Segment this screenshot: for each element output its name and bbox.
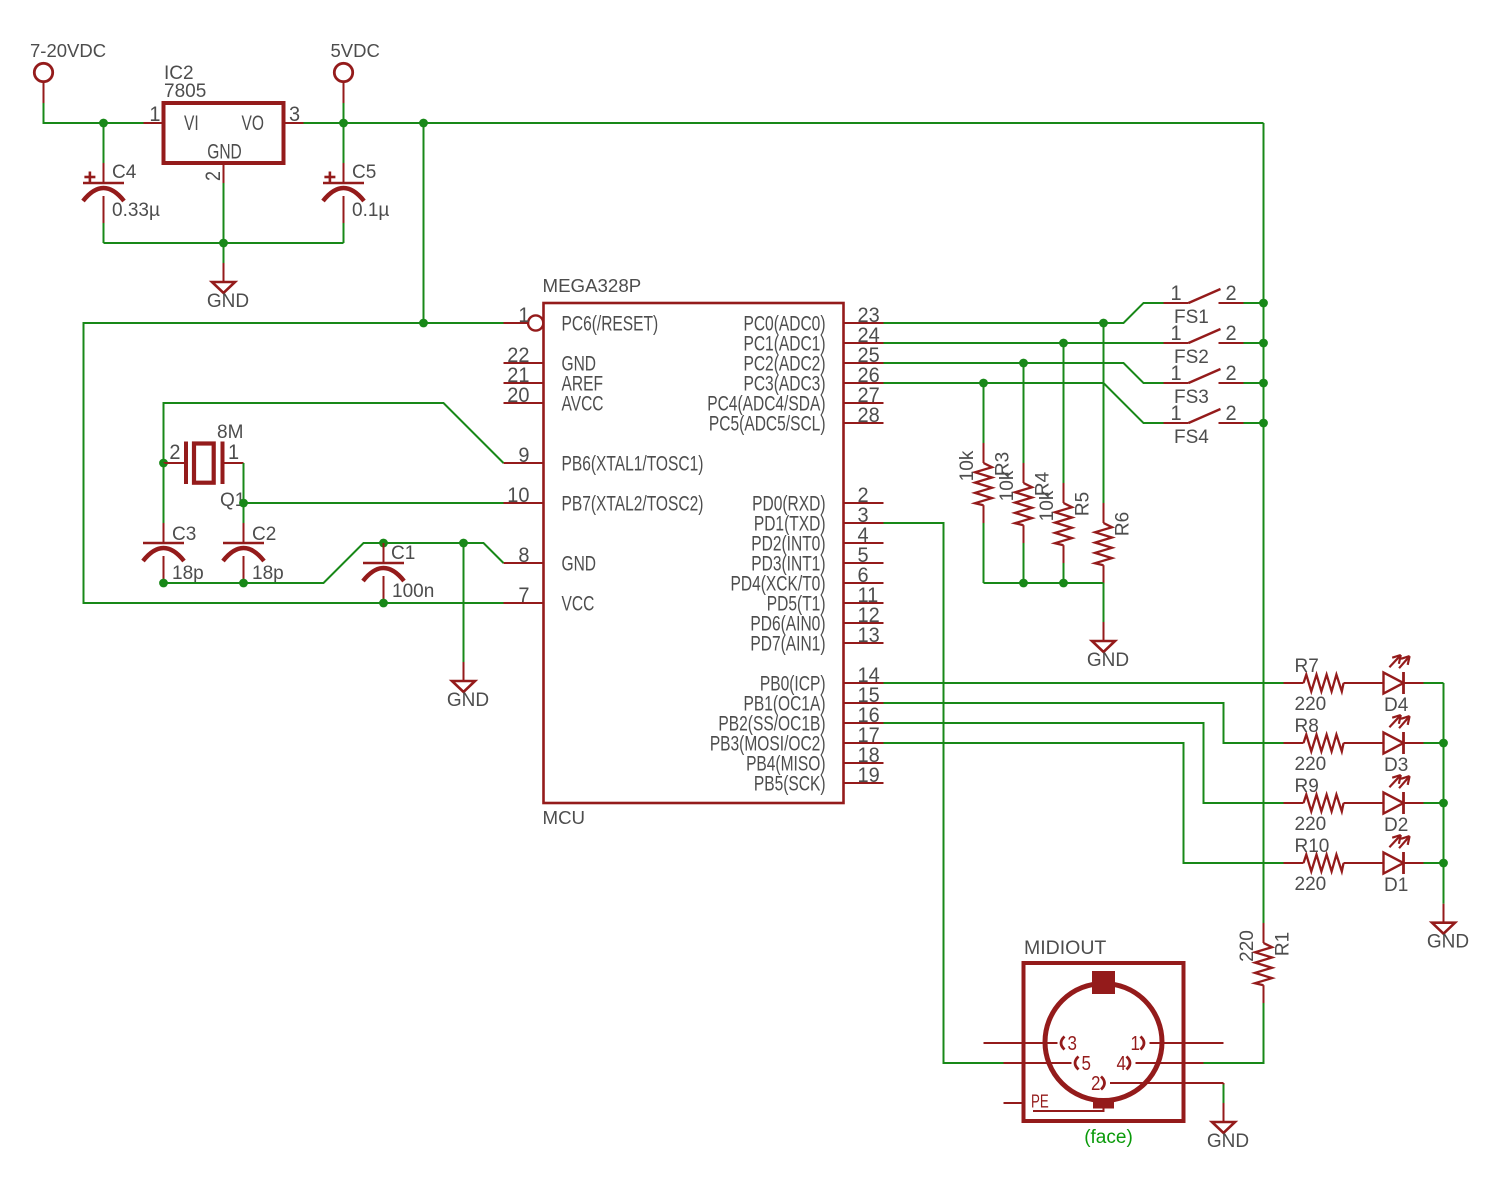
svg-text:10k: 10k — [997, 470, 1018, 501]
MCU pin 26 PC3(ADC3) — [743, 364, 883, 396]
node: junction FS1/5V bus — [1259, 299, 1268, 308]
svg-text:(face): (face) — [1084, 1127, 1133, 1148]
svg-text:GND: GND — [207, 139, 242, 163]
MCU pin 28 PC5(ADC5/SCL) — [709, 404, 884, 436]
node: junction C1 top — [379, 539, 388, 548]
MCU pin 8 GND — [504, 544, 597, 576]
wire rail to ground — [223, 243, 225, 263]
node: junction R4 tap — [1019, 359, 1028, 368]
wire reset net (VCC to pin1) — [84, 323, 504, 603]
IC2 pin 3 (VO) — [284, 103, 304, 127]
svg-text:VI: VI — [184, 111, 199, 135]
svg-text:2: 2 — [1091, 1072, 1100, 1095]
svg-text:R10: R10 — [1295, 836, 1330, 857]
svg-text:MCU: MCU — [543, 807, 586, 828]
wire FS1 pin2 to 5V bus — [1244, 302, 1264, 304]
wire D2 cathode to gnd bus — [1424, 802, 1444, 804]
node: junction R3 tap — [979, 379, 988, 388]
wire LED ground bus — [1443, 683, 1445, 904]
svg-text:2: 2 — [169, 441, 180, 465]
node: junction D3 — [1439, 739, 1448, 748]
svg-text:1: 1 — [1170, 402, 1181, 426]
wire tap to R6 — [1103, 323, 1105, 503]
ground below C1 — [447, 662, 489, 711]
node: junction FS3/5V bus — [1259, 379, 1268, 388]
svg-text:2: 2 — [1225, 362, 1236, 386]
svg-text:VO: VO — [242, 111, 264, 135]
LED D1 — [1364, 835, 1424, 896]
MCU pin 2 PD0(RXD) — [752, 484, 883, 516]
svg-text:PD7(AIN1): PD7(AIN1) — [750, 631, 825, 655]
svg-text:7: 7 — [518, 584, 529, 608]
node: junction R6 tap — [1099, 319, 1108, 328]
resistor R4 10k — [997, 463, 1054, 543]
resistor R3 10k — [957, 443, 1014, 523]
MCU pin 21 AREF — [504, 364, 603, 396]
wire tap to R3 — [983, 383, 985, 443]
MCU pin 10 PB7(XTAL2/TOSC2) — [504, 484, 704, 516]
node: junction C4/top wire — [99, 119, 108, 128]
MIDI pin 4 — [1117, 1052, 1204, 1075]
wire FS3 pin2 to 5V bus — [1244, 382, 1264, 384]
svg-text:R1: R1 — [1273, 932, 1294, 956]
wire MCU to R8 — [884, 703, 1284, 743]
svg-text:1: 1 — [1170, 282, 1181, 306]
crystal Q1 8M — [164, 422, 246, 511]
svg-text:220: 220 — [1295, 754, 1327, 775]
svg-text:18p: 18p — [172, 563, 204, 584]
svg-text:7-20VDC: 7-20VDC — [30, 40, 106, 61]
MCU pin 17 PB3(MOSI/OC2) — [710, 724, 884, 756]
svg-text:GND: GND — [1427, 932, 1469, 953]
svg-text:18p: 18p — [252, 563, 284, 584]
node: junction C2 bottom — [239, 579, 248, 588]
svg-text:D2: D2 — [1384, 815, 1408, 836]
wire ground rail C4-C5 — [104, 242, 344, 244]
LED D2 — [1364, 775, 1424, 836]
MCU pin 7 VCC — [504, 584, 595, 616]
node: junction rail R5 — [1059, 579, 1068, 588]
svg-text:220: 220 — [1295, 814, 1327, 835]
resistor R1 220 — [1237, 923, 1294, 1003]
node: junction crystal pin1 / C2 / pin10 — [239, 499, 248, 508]
wire 7-20VDC to IC2 VI — [44, 103, 144, 123]
MCU pin 6 PD4(XCK/T0) — [731, 564, 884, 596]
svg-text:C1: C1 — [391, 543, 415, 564]
node: junction C3 bottom — [159, 579, 168, 588]
wire PC0 (pin23) to FS1 — [884, 303, 1164, 323]
pad 7-20VDC — [30, 40, 106, 103]
wire FS2 pin2 to 5V bus — [1244, 342, 1264, 344]
svg-text:D1: D1 — [1384, 875, 1408, 896]
wire 5VDC pad down — [343, 103, 345, 123]
svg-text:20: 20 — [507, 384, 529, 408]
wire MCU to R9 — [884, 723, 1284, 803]
ground below LEDs — [1427, 904, 1469, 953]
svg-text:9: 9 — [518, 444, 529, 468]
MCU pin 18 PB4(MISO) — [746, 744, 883, 776]
IC2 pin 2 (GND) — [202, 163, 226, 183]
MCU pin 1 PC6(/RESET) — [504, 304, 659, 336]
wire VCC drop to reset net — [423, 123, 425, 323]
wire 5V right bus down to R1 — [1263, 123, 1265, 923]
svg-text:R5: R5 — [1073, 492, 1094, 516]
connector MIDIOUT DIN-5 — [1024, 937, 1184, 1148]
node: junction D2 — [1439, 799, 1448, 808]
wire tap to R4 — [1023, 363, 1025, 463]
LED D3 — [1364, 715, 1424, 776]
resistor R7 220 — [1284, 656, 1364, 715]
svg-text:AVCC: AVCC — [562, 391, 604, 415]
node: junction rail R4 — [1019, 579, 1028, 588]
svg-text:0.1µ: 0.1µ — [352, 200, 389, 221]
MCU pin 15 PB1(OC1A) — [743, 684, 883, 716]
node: junction reset/VCC drop — [419, 319, 428, 328]
svg-text:PB6(XTAL1/TOSC1): PB6(XTAL1/TOSC1) — [562, 451, 704, 475]
wire IC2 pin2 to ground rail — [223, 183, 225, 243]
MIDI pin 2 — [1091, 1072, 1223, 1095]
MCU pin 11 PD5(T1) — [767, 584, 884, 616]
wire PC3 (pin26) to FS4 — [884, 383, 1164, 423]
node: junction FS2/5V bus — [1259, 339, 1268, 348]
MCU pin 25 PC2(ADC2) — [743, 344, 883, 376]
capacitor C2 18p — [223, 503, 284, 584]
capacitor C5 0.1u — [323, 123, 389, 243]
MCU pin 16 PB2(SS/OC1B) — [718, 704, 883, 736]
capacitor C1 100n — [363, 543, 434, 603]
svg-text:220: 220 — [1295, 694, 1327, 715]
MCU pin 12 PD6(AIN0) — [750, 604, 883, 636]
wire PC1 (pin24) to FS2 — [884, 342, 1164, 344]
svg-text:PC5(ADC5/SCL): PC5(ADC5/SCL) — [709, 411, 826, 435]
IC2 7805 voltage regulator — [164, 63, 284, 163]
switch FS1 — [1164, 282, 1244, 328]
MCU pin 14 PB0(ICP) — [760, 664, 884, 696]
MIDI pin PE — [1004, 1091, 1104, 1112]
svg-text:C2: C2 — [252, 524, 276, 545]
svg-text:MEGA328P: MEGA328P — [543, 275, 642, 296]
switch FS4 — [1164, 402, 1244, 448]
node: junction gnd drop — [459, 539, 468, 548]
svg-text:1: 1 — [1170, 362, 1181, 386]
wire MIDI pin2 to ground — [1223, 1083, 1225, 1103]
wire resistor ground rail — [984, 523, 1104, 583]
svg-text:PB7(XTAL2/TOSC2): PB7(XTAL2/TOSC2) — [562, 491, 704, 515]
svg-text:C4: C4 — [112, 162, 137, 183]
ground below IC2 — [207, 263, 249, 312]
svg-text:19: 19 — [858, 764, 880, 788]
svg-text:FS4: FS4 — [1174, 427, 1209, 448]
svg-text:2: 2 — [1225, 322, 1236, 346]
wire XTAL2 (pin10) — [244, 502, 504, 504]
MCU pin 22 GND — [504, 344, 597, 376]
wire rail to ground — [1103, 583, 1105, 622]
svg-text:1: 1 — [1131, 1032, 1140, 1055]
MIDI pin 5 — [1004, 1052, 1091, 1075]
node: junction C1 bottom / VCC wire — [379, 599, 388, 608]
capacitor C3 18p — [143, 463, 204, 584]
svg-text:C3: C3 — [172, 524, 196, 545]
ground below R6 — [1087, 622, 1129, 671]
MCU pin 20 AVCC — [504, 384, 604, 416]
svg-text:7805: 7805 — [164, 81, 206, 102]
MIDI pin 3 — [984, 1032, 1077, 1055]
node: junction FS4/5V bus — [1259, 419, 1268, 428]
wire xtal caps ground rail to pin8 — [164, 543, 504, 583]
svg-text:GND: GND — [562, 551, 597, 575]
svg-text:28: 28 — [858, 404, 880, 428]
MCU pin 24 PC1(ADC1) — [743, 324, 883, 356]
svg-text:PC6(/RESET): PC6(/RESET) — [562, 311, 659, 335]
svg-text:13: 13 — [858, 624, 880, 648]
svg-text:100n: 100n — [392, 581, 434, 602]
MCU pin 23 PC0(ADC0) — [743, 304, 883, 336]
wire crystal pin1 down to pin10 wire — [243, 463, 245, 503]
svg-text:R7: R7 — [1295, 656, 1319, 677]
MCU pin 27 PC4(ADC4/SDA) — [707, 384, 883, 416]
switch FS3 — [1164, 362, 1244, 408]
svg-text:4: 4 — [1117, 1052, 1126, 1075]
wire TXD (pin3) to MIDI pin5 — [884, 523, 1004, 1063]
LED D4 — [1364, 655, 1424, 716]
svg-text:10k: 10k — [957, 450, 978, 481]
svg-text:GND: GND — [447, 690, 489, 711]
wire D3 cathode to gnd bus — [1424, 742, 1444, 744]
resistor R10 220 — [1284, 836, 1364, 895]
svg-text:C5: C5 — [352, 162, 376, 183]
resistor R6 10k — [1095, 503, 1134, 583]
resistor R9 220 — [1284, 776, 1364, 835]
wire XTAL1 (pin9) to crystal — [164, 403, 504, 463]
MCU pin 3 PD1(TXD) — [754, 504, 884, 536]
node: junction VCC drop/top wire — [419, 119, 428, 128]
svg-text:2: 2 — [1225, 282, 1236, 306]
svg-text:R6: R6 — [1113, 512, 1134, 536]
switch FS2 — [1164, 322, 1244, 368]
svg-text:1: 1 — [518, 304, 529, 328]
svg-text:GND: GND — [1207, 1131, 1249, 1152]
svg-text:MIDIOUT: MIDIOUT — [1024, 937, 1106, 959]
MCU pin 4 PD2(INT0) — [751, 524, 883, 556]
pad 5VDC — [331, 40, 380, 103]
svg-text:5VDC: 5VDC — [331, 40, 380, 61]
svg-text:0.33µ: 0.33µ — [112, 200, 160, 221]
svg-text:8: 8 — [518, 544, 529, 568]
MIDI pin 1 — [1131, 1032, 1224, 1055]
wire D4 cathode to gnd bus — [1424, 682, 1444, 684]
svg-text:2: 2 — [202, 171, 226, 181]
ground below MIDI — [1207, 1103, 1249, 1152]
svg-text:2: 2 — [1225, 402, 1236, 426]
node: junction D1 — [1439, 859, 1448, 868]
svg-text:R8: R8 — [1295, 716, 1319, 737]
wire MCU to R10 — [884, 743, 1284, 863]
resistor R5 10k — [1037, 483, 1094, 563]
svg-text:D4: D4 — [1384, 695, 1409, 716]
svg-text:GND: GND — [207, 291, 249, 312]
svg-text:PB5(SCK): PB5(SCK) — [754, 771, 826, 795]
svg-text:10k: 10k — [1037, 490, 1058, 521]
node: junction R5 tap — [1059, 339, 1068, 348]
svg-text:VCC: VCC — [562, 591, 595, 615]
svg-text:10: 10 — [507, 484, 529, 508]
svg-text:5: 5 — [1082, 1052, 1091, 1075]
svg-text:220: 220 — [1295, 874, 1327, 895]
node: junction crystal pin2 / C3 — [159, 459, 168, 468]
node: junction 5VDC/C5/top wire — [339, 119, 348, 128]
MCU pin 5 PD3(INT1) — [751, 544, 883, 576]
wire D1 cathode to gnd bus — [1424, 862, 1444, 864]
IC2 pin 1 (VI) — [144, 103, 164, 127]
wire R1 to MIDI pin4 — [1204, 1003, 1264, 1063]
wire PB0 to R7 — [884, 682, 1284, 684]
capacitor C4 0.33u — [83, 123, 160, 243]
main 5V top wire — [304, 122, 1264, 124]
svg-text:R9: R9 — [1295, 776, 1319, 797]
wire gnd drop below C1 — [463, 543, 465, 662]
MCU pin 9 PB6(XTAL1/TOSC1) — [504, 444, 704, 476]
wire FS4 pin2 to 5V bus — [1244, 422, 1264, 424]
svg-text:D3: D3 — [1384, 755, 1408, 776]
wire tap to R5 — [1063, 343, 1065, 483]
svg-text:PE: PE — [1031, 1091, 1049, 1112]
svg-text:3: 3 — [289, 103, 300, 127]
svg-text:8M: 8M — [217, 422, 243, 443]
resistor R8 220 — [1284, 716, 1364, 775]
svg-text:1: 1 — [228, 441, 239, 465]
svg-text:3: 3 — [1068, 1032, 1077, 1055]
wire PC2 (pin25) to FS3 — [884, 363, 1164, 383]
svg-text:1: 1 — [149, 103, 160, 127]
svg-text:220: 220 — [1237, 930, 1258, 962]
svg-text:GND: GND — [1087, 650, 1129, 671]
op-amp U1 MCU MEGA328P body — [543, 275, 844, 828]
svg-text:1: 1 — [1170, 322, 1181, 346]
MCU pin 13 PD7(AIN1) — [750, 624, 883, 656]
MCU pin 19 PB5(SCK) — [754, 764, 884, 796]
node: junction rail/GND — [219, 239, 228, 248]
